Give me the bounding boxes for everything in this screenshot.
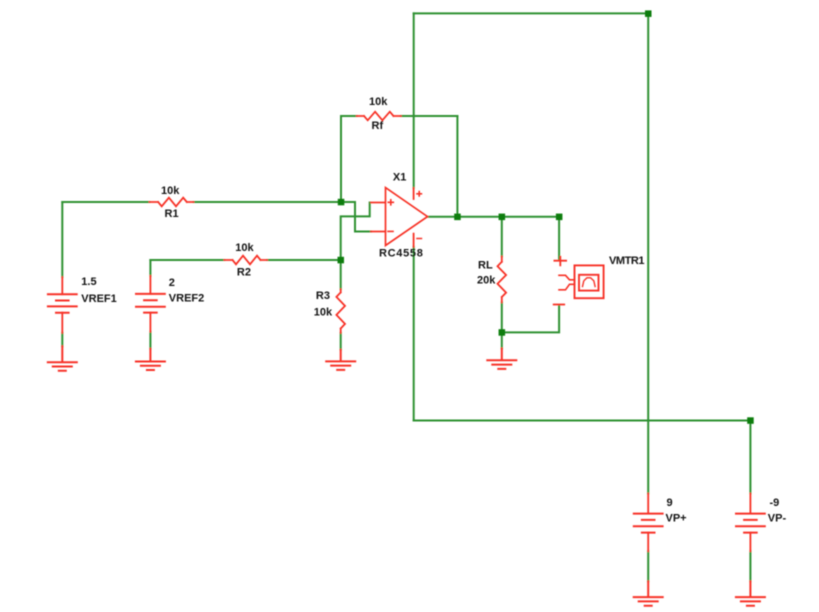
svg-text:R3: R3	[316, 290, 330, 302]
resistor R3	[336, 289, 345, 333]
wire RL top	[501, 217, 503, 257]
svg-text:Rf: Rf	[372, 120, 384, 132]
label VMTR1	[609, 255, 644, 267]
wire VP- battery to ground	[749, 551, 751, 581]
wire VREF1 bottom	[61, 333, 63, 347]
label R3	[316, 290, 330, 302]
resistor R1	[150, 198, 194, 207]
svg-text:2: 2	[169, 277, 175, 289]
wire VP- vertical	[749, 421, 751, 494]
wire Rf right vertical	[456, 116, 458, 217]
wire VP+ battery to ground	[647, 551, 649, 581]
label Rf	[372, 120, 384, 132]
label 1.5	[81, 276, 96, 288]
wire Rf left vertical	[340, 116, 342, 202]
wire R2 horizontal	[150, 259, 340, 261]
op-amp minus input symbol	[388, 230, 393, 232]
svg-text:9: 9	[667, 497, 673, 509]
label X1	[393, 172, 406, 184]
wire left vertical upper	[413, 13, 415, 188]
label RL	[478, 260, 493, 272]
op-amp power pin stubs	[413, 188, 415, 247]
node RL top junction	[499, 214, 506, 221]
wire voltmeter bottom	[502, 306, 559, 332]
wire VREF2 top vertical	[149, 260, 151, 276]
ground VREF2	[136, 349, 165, 370]
node VP- junction	[747, 417, 754, 424]
label VREF1	[81, 293, 116, 305]
label 9	[667, 497, 673, 509]
ground R3	[326, 350, 355, 370]
wire R1 horizontal	[62, 201, 341, 203]
wire inverting input path	[341, 202, 371, 232]
label 10k of R3	[314, 306, 333, 318]
svg-text:10k: 10k	[314, 306, 333, 318]
wire noninverting input path	[341, 203, 370, 261]
op-amp U1 triangle	[386, 188, 428, 246]
wire VP+ vertical	[647, 13, 649, 493]
node top right junction	[645, 10, 652, 17]
svg-text:VP-: VP-	[768, 513, 787, 525]
wire Rf horizontal	[341, 115, 457, 117]
svg-text:VMTR1: VMTR1	[609, 255, 644, 267]
svg-text:1.5: 1.5	[81, 276, 96, 288]
ground VP-	[736, 581, 765, 605]
node output feedback junction	[454, 214, 461, 221]
wire top rail	[414, 12, 649, 14]
svg-text:20k: 20k	[477, 275, 496, 287]
label 10k of R2	[235, 242, 254, 254]
svg-text:R1: R1	[165, 208, 179, 220]
label 2	[169, 277, 175, 289]
node R1 Rf junction	[338, 199, 345, 206]
battery VP+	[634, 494, 663, 552]
voltmeter VMTR1 symbol	[554, 257, 604, 305]
svg-text:10k: 10k	[161, 185, 180, 197]
wire VREF1 top vertical	[61, 202, 63, 277]
label 10k of Rf	[369, 96, 388, 108]
svg-text:VP+: VP+	[666, 513, 687, 525]
svg-text:10k: 10k	[369, 96, 388, 108]
wire bottom rail	[414, 420, 751, 422]
node RL bottom junction	[499, 329, 506, 336]
wire R3 top	[340, 260, 342, 289]
svg-text:R2: R2	[237, 267, 251, 279]
node R2 R3 junction	[338, 257, 345, 264]
label -9	[770, 497, 780, 509]
svg-text:RC4558: RC4558	[379, 248, 424, 260]
wire op-amp output	[428, 216, 560, 218]
node voltmeter top junction	[556, 214, 563, 221]
battery VREF2	[136, 276, 165, 332]
label RC4558	[379, 248, 424, 260]
label VP-	[768, 513, 787, 525]
label VREF2	[169, 293, 204, 305]
label VP+	[666, 513, 687, 525]
svg-text:-9: -9	[770, 497, 780, 509]
label 20k of RL	[477, 275, 496, 287]
wire R3 bottom	[340, 333, 342, 350]
op-amp plus input symbol	[388, 200, 393, 205]
wire RL bottom	[501, 302, 503, 348]
resistor R2	[224, 256, 267, 265]
op-amp Vplus power symbol	[417, 192, 421, 239]
ground RL	[487, 349, 516, 369]
resistor RL	[498, 257, 507, 303]
resistor Rf	[357, 112, 401, 121]
ground VP+	[634, 581, 663, 605]
battery VP-	[736, 494, 765, 552]
wire voltmeter top	[558, 217, 560, 260]
label R2	[237, 267, 251, 279]
svg-text:RL: RL	[478, 260, 493, 272]
svg-text:10k: 10k	[235, 242, 254, 254]
label 10k of R1	[161, 185, 180, 197]
svg-text:X1: X1	[393, 172, 406, 184]
label R1	[165, 208, 179, 220]
wire VREF2 bottom	[149, 332, 151, 349]
ground VREF1	[48, 346, 77, 371]
wire left vertical lower	[413, 247, 415, 421]
svg-text:VREF1: VREF1	[81, 293, 116, 305]
svg-text:VREF2: VREF2	[169, 293, 204, 305]
battery VREF1	[48, 277, 77, 333]
op-amp input pin stubs	[371, 203, 385, 232]
